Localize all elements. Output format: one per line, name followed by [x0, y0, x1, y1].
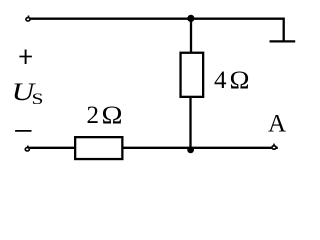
svg-text:2: 2: [87, 102, 100, 129]
terminal top-left: [26, 16, 30, 21]
label minus: [15, 130, 31, 132]
svg-text:Ω: Ω: [230, 67, 250, 94]
svg-text:Ω: Ω: [102, 102, 123, 129]
wire middle vertical lower: [189, 97, 191, 149]
svg-text:4: 4: [214, 67, 227, 94]
wire right vertical to ground: [283, 18, 285, 42]
junction top: [187, 15, 194, 22]
label 4 ohm: [214, 67, 250, 94]
label plus: [19, 50, 32, 65]
wire middle vertical upper: [190, 18, 192, 54]
wire bottom horizontal: [28, 147, 278, 149]
resistor R 2ohm: [75, 137, 122, 159]
wire top horizontal: [28, 18, 284, 20]
svg-text:A: A: [268, 111, 286, 138]
ground: [270, 40, 296, 42]
label Us: [12, 79, 44, 108]
label 2 ohm: [87, 102, 123, 129]
resistor R 4ohm: [181, 53, 204, 97]
junction bottom: [187, 147, 194, 154]
terminal A: [272, 144, 276, 150]
svg-text:S: S: [32, 91, 44, 108]
terminal bottom-left: [25, 146, 29, 152]
